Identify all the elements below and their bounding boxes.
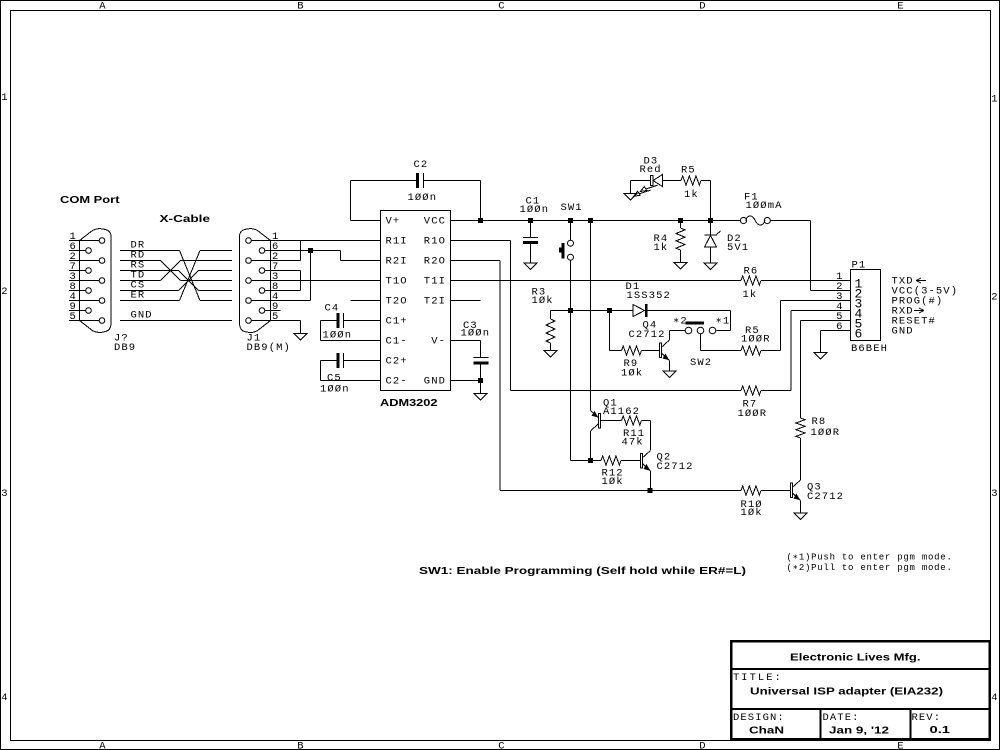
J? pin stubs [69,241,99,321]
J1 pin 4 circle [246,298,252,304]
ground C1 [524,263,537,270]
svg-text:ER: ER [131,290,146,302]
capacitor C4 [321,313,381,341]
svg-text:C4: C4 [325,303,340,315]
wire ER right (at DR row) [200,250,232,252]
svg-text:1k: 1k [684,189,699,201]
svg-text:∗2: ∗2 [673,316,688,328]
svg-text:5: 5 [70,311,77,323]
J1 pin 6 circle [259,248,265,254]
junction dot C2/VCC [478,218,483,223]
svg-text:C2712: C2712 [629,329,666,341]
svg-text:(∗1)Push to enter pgm mode.: (∗1)Push to enter pgm mode. [787,553,953,563]
transistor Q3 C2712 [791,483,793,498]
wire D1 row [571,310,634,312]
svg-text:C: C [498,1,505,13]
wire J1 pin4 to pin6 node [251,251,310,301]
svg-text:ChaN: ChaN [749,725,784,737]
wire J1 pin3 to T1O [251,280,380,282]
svg-text:1ØØn: 1ØØn [320,384,350,396]
svg-text:4: 4 [1,692,8,704]
svg-text:V-: V- [431,336,446,348]
svg-text:1Øk: 1Øk [621,367,643,379]
capacitor C2 [416,173,419,188]
J1 pin 7 circle [259,268,265,274]
svg-text:GND: GND [131,310,153,322]
junction dot Q1 collector/R12 [588,458,593,463]
svg-text:GND: GND [424,376,446,388]
resistor R5 100R [741,346,761,355]
resistor R10 [741,486,761,495]
arrow TXD left [916,278,926,283]
svg-text:C2-: C2- [386,376,408,388]
wire DR left [120,250,180,252]
svg-text:1ØØn: 1ØØn [461,328,491,340]
svg-text:5V1: 5V1 [727,242,749,254]
wire J1 pin1+pin2 to R1I [251,241,380,261]
svg-text:DB9(M): DB9(M) [247,342,291,354]
resistor R7 [741,386,761,395]
title block [731,641,990,739]
svg-text:SW1: Enable Programming (Self: SW1: Enable Programming (Self hold while… [419,565,746,577]
junction dot Q2 emitter [648,488,653,493]
wire T1I row to R6 [451,280,742,282]
svg-text:1: 1 [1,92,8,104]
IC U1 ADM3202 body [381,211,451,391]
J1 pin 1 circle [246,238,252,244]
capacitor C1 [523,223,538,263]
svg-text:B6BEH: B6BEH [851,343,888,355]
fuse F1 [740,217,746,223]
svg-text:(∗2)Pull to enter pgm mode.: (∗2)Pull to enter pgm mode. [787,563,953,573]
wire RD right [181,280,233,282]
svg-text:6: 6 [836,321,843,333]
svg-text:∗1: ∗1 [716,316,731,328]
resistor R4 [680,221,682,229]
svg-text:C2712: C2712 [657,461,694,473]
svg-text:E: E [897,741,904,750]
svg-text:T2O: T2O [386,296,408,308]
svg-text:B: B [297,1,304,13]
svg-text:1ØØn: 1ØØn [520,204,550,216]
wire J1 pin6 to R2I [265,251,381,261]
junction dot D2 top [708,218,713,223]
connector J1 DB9(M) shell [240,229,271,333]
J? pin 9 circle [86,308,92,314]
svg-text:Universal ISP adapter (EIA232): Universal ISP adapter (EIA232) [750,686,943,698]
J1 pin 3 circle [246,278,252,284]
junction dot pin6/pin4 [308,248,313,253]
svg-text:GND: GND [892,326,914,338]
ground Q4 emitter [663,371,676,378]
wire R5 to P1 pin3 [761,301,851,351]
svg-text:A: A [99,741,106,750]
svg-text:Red: Red [640,164,662,176]
svg-text:V+: V+ [386,216,401,228]
crossover RS-CS [179,271,199,291]
resistor R9 [622,346,642,355]
resistor R12 [601,456,621,465]
svg-text:0.1: 0.1 [930,724,951,736]
wire TD right [181,260,233,262]
svg-text:1k: 1k [654,242,669,254]
svg-text:1Øk: 1Øk [741,507,763,519]
svg-text:1ØØR: 1ØØR [741,334,771,346]
J? pin 7 circle [86,268,92,274]
svg-text:SW1: SW1 [561,202,583,214]
wire R9 to Q4 base [642,350,660,352]
transistor Q2 C2712 [641,454,643,469]
svg-text:4: 4 [991,692,998,704]
svg-text:2: 2 [991,292,998,304]
ground R4 [674,263,687,270]
svg-text:1k: 1k [743,289,758,301]
transistor Q4 C2712 [660,343,662,358]
ground IC GND [474,394,487,401]
ground R3 [544,351,557,358]
svg-text:A1162: A1162 [603,406,640,418]
wire RS right [199,290,233,292]
capacitor C3 [474,362,489,365]
connector J? DB9 shell [80,229,112,333]
ground Q3 emitter [794,513,807,520]
junction dot Q1 emitter top [588,218,593,223]
svg-text:5: 5 [272,311,279,323]
svg-text:3: 3 [991,488,998,500]
wire R2O to R10 row [451,261,742,491]
svg-text:R2O: R2O [424,256,446,268]
svg-text:1SS352: 1SS352 [627,290,671,302]
svg-text:T1O: T1O [386,276,408,288]
wire ER left [120,300,180,302]
svg-text:SW2: SW2 [690,357,712,369]
svg-text:A: A [99,1,106,13]
svg-text:C1+: C1+ [386,316,408,328]
svg-text:X-Cable: X-Cable [160,213,211,225]
wire J1 pin7-pin8 loop [265,271,301,291]
J? pin 5 circle [99,318,105,324]
wire V+ and C2 loop [351,181,481,221]
J1 pin 8 circle [259,288,265,294]
wire GND [120,320,232,322]
wire V- to C3 [451,341,489,394]
resistor R5 1k [681,176,701,185]
wire TD left [120,280,161,282]
svg-text:1ØØR: 1ØØR [811,427,841,439]
wire R12 to Q2 base [621,460,641,462]
svg-text:ADM3202: ADM3202 [380,397,438,409]
svg-text:3: 3 [1,488,8,500]
resistor R11 [622,416,642,425]
J1 pin 9 circle [259,308,265,314]
svg-text:R1O: R1O [424,236,446,248]
zener D2 5V1 [710,221,712,236]
J1 pin 2 circle [246,258,252,264]
wire RD left [120,260,161,262]
svg-text:C2+: C2+ [386,356,408,368]
J1 pin 5 circle [246,318,252,324]
svg-text:1Øk: 1Øk [532,295,554,307]
ground D3 [624,194,637,201]
svg-text:R5: R5 [681,165,696,177]
svg-text:C2: C2 [414,159,429,171]
J? pin 3 circle [99,278,105,284]
junction dot D1 row to R9 [607,308,612,313]
wire T2I stub [451,300,481,302]
switch SW2 [685,327,692,334]
svg-text:TITLE:: TITLE: [733,672,783,684]
svg-text:T2I: T2I [424,296,446,308]
svg-text:1ØØmA: 1ØØmA [746,200,783,212]
svg-text:2: 2 [1,286,8,298]
svg-text:R1I: R1I [386,236,408,248]
wire DR right (at ER row) [200,300,232,302]
wire T2O stub [351,300,381,302]
ground D2 [704,263,717,270]
wire R7 to P1 pin4 [761,311,851,391]
junction dot R4 top [678,218,683,223]
J? pin 8 circle [86,288,92,294]
svg-text:T1I: T1I [424,276,446,288]
arrow RXD right [914,308,924,313]
wire CS left [120,290,179,292]
wire R5 down to VCC row [701,181,711,221]
connector P1 box [851,270,881,341]
svg-text:1: 1 [991,94,998,106]
svg-text:6: 6 [855,327,863,342]
svg-text:Jan 9, '12: Jan 9, '12 [829,725,889,737]
svg-text:C1-: C1- [386,336,408,348]
ground J1 pin5 [294,334,307,341]
LED D3 emission arrows [634,185,658,196]
svg-text:1ØØn: 1ØØn [323,330,353,342]
svg-text:COM Port: COM Port [60,194,120,206]
ground P1 pin6 [814,353,827,360]
J? pin 1 circle [99,238,105,244]
svg-text:E: E [897,1,904,13]
wire R10 to Q3 base [761,490,791,492]
svg-text:1Øk: 1Øk [602,476,624,488]
wire SW2 common to R5 [701,334,742,351]
wire Q1 base to R11 [601,420,622,422]
junction dot SW1 top [568,218,573,223]
crossover DR-ER [180,251,201,301]
svg-text:C2712: C2712 [807,491,844,503]
wire P1 pin6 to ground [821,331,851,353]
svg-text:R6: R6 [744,266,759,278]
svg-text:1ØØn: 1ØØn [408,192,438,204]
svg-text:1ØØR: 1ØØR [738,408,768,420]
svg-text:DATE:: DATE: [823,712,860,724]
resistor R8 [796,418,805,438]
wire D1 cathode to SW2 right [648,311,731,331]
svg-text:B: B [297,741,304,750]
wire D3 to R5 [663,180,682,182]
wire CS right [199,270,233,272]
diode D1 1SS352 [633,305,645,317]
svg-text:Electronic Lives Mfg.: Electronic Lives Mfg. [790,652,921,664]
svg-text:DB9: DB9 [114,342,136,354]
J? pin 4 circle [99,298,105,304]
svg-text:C: C [498,741,505,750]
svg-text:47k: 47k [622,437,644,449]
svg-text:DESIGN:: DESIGN: [733,712,785,724]
wire R11 to Q2 collector [642,421,651,451]
svg-text:R2I: R2I [386,256,408,268]
junction dot C1 top [528,218,533,223]
junction dot GND row [478,378,483,383]
wire R6 to P1 pin1 [761,280,851,282]
J? pin 6 circle [86,248,92,254]
capacitor C5 [321,353,381,381]
svg-text:P1: P1 [852,260,867,272]
crossover RD-TD [161,261,181,281]
wire D1 junction down to R9 [610,311,622,351]
transistor Q1 A1162 [590,223,592,411]
wire R1O to R7 row [451,241,742,391]
wire J1 pin5 to ground [251,321,300,334]
wire VCC row [451,221,851,291]
wire RS left [120,270,179,272]
svg-text:D: D [699,1,706,13]
svg-text:VCC: VCC [424,216,446,228]
wire J1 pin9 stub [265,310,281,312]
svg-text:REV:: REV: [912,712,942,724]
J? pin 2 circle [99,258,105,264]
junction dot SW1/R3/D1 [568,308,573,313]
resistor R6 [741,276,761,285]
svg-text:D: D [699,741,706,750]
wire SW1 column to R12 [571,460,602,462]
